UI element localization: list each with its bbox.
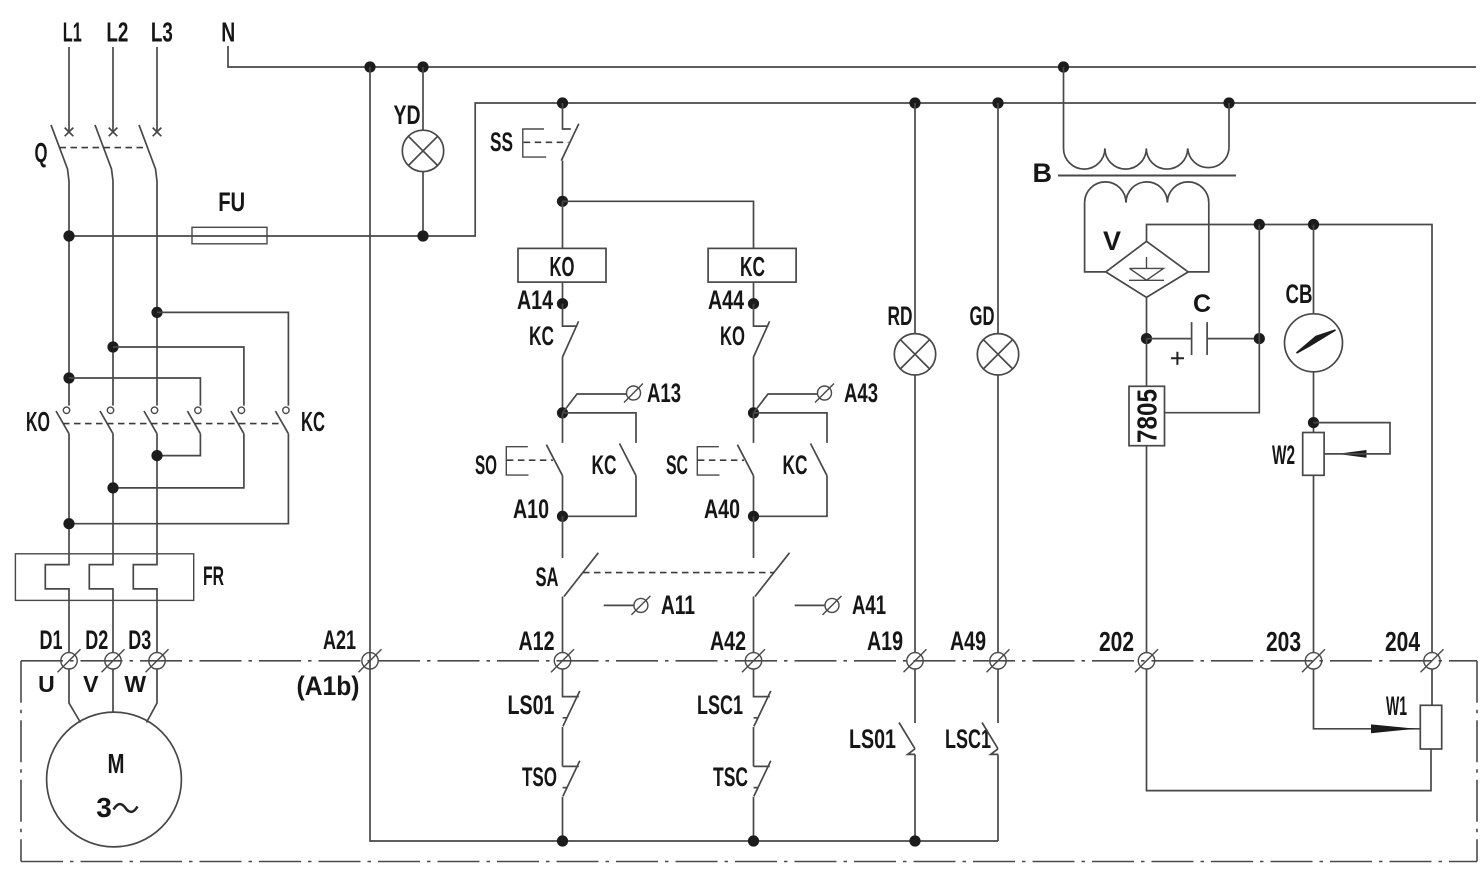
transformer B core — [1058, 175, 1236, 177]
node A44 — [748, 298, 759, 309]
node SS output junction — [557, 196, 568, 207]
svg-text:KC: KC — [592, 450, 617, 480]
selector SA blade left — [564, 553, 598, 597]
svg-text:A21: A21 — [323, 625, 356, 655]
lamp GD — [977, 334, 1018, 375]
wire SA right lower lead — [753, 597, 755, 653]
terminal A21 — [359, 649, 382, 672]
panel boundary dash-dot right — [1476, 661, 1478, 862]
node A40 — [748, 511, 759, 522]
terminal A43 — [815, 384, 834, 403]
wire SA left lower lead — [562, 597, 564, 653]
pushbutton SO blade — [546, 445, 562, 476]
node YD on fuse line — [417, 230, 428, 241]
wire W2 bottom to 203 — [1313, 475, 1315, 652]
terminal D2 — [102, 649, 125, 672]
wire motor lead W — [147, 669, 158, 723]
svg-text:SO: SO — [475, 450, 497, 480]
pushbutton SC dashed link — [698, 459, 744, 461]
terminal A13 — [624, 384, 643, 403]
svg-text:KC: KC — [783, 450, 808, 480]
rectifier V diode symbol — [1129, 257, 1164, 280]
node pole6 out — [63, 518, 74, 529]
regulator 7805 input lead — [1146, 339, 1148, 387]
terminal A11 — [631, 596, 650, 615]
contactor pole 3 (KO) — [144, 407, 158, 434]
regulator 7805 box — [1129, 386, 1165, 445]
node KC branch bottom — [748, 835, 759, 846]
wire phase2 vertical — [112, 434, 114, 555]
node bus2 at SS branch — [557, 97, 568, 108]
svg-text:LS01: LS01 — [849, 724, 896, 754]
wire GD upper — [997, 103, 999, 334]
wire pole6 output to phase1 — [69, 434, 288, 524]
terminal A49 — [987, 649, 1010, 672]
wire 203 to W1 wiper — [1314, 669, 1421, 729]
svg-text:KO: KO — [720, 321, 745, 351]
svg-text:(A1b): (A1b) — [297, 671, 360, 701]
coil KO box — [518, 248, 606, 282]
contactor pole 5 (KC) — [231, 407, 245, 434]
node W2 top junction — [1308, 417, 1319, 428]
node A43 junction — [748, 407, 759, 418]
breaker Q pole 2 blade — [95, 125, 113, 406]
breaker Q linkage dashed — [60, 147, 148, 149]
wire secondary left lead — [1085, 203, 1106, 272]
regulator 7805 output lead — [1146, 446, 1148, 653]
node rectifier output — [1141, 333, 1152, 344]
contactor pole 4 (KC) — [187, 407, 201, 434]
svg-text:KC: KC — [740, 251, 765, 282]
wire RD lower — [914, 375, 916, 653]
node N bus at transformer — [1058, 61, 1069, 72]
terminal 203 — [1302, 649, 1325, 672]
wire L3 to pole6 — [157, 312, 288, 405]
terminal A41 — [823, 596, 842, 615]
panel boundary dash-dot bottom — [21, 861, 1477, 863]
pushbutton SO actuator box — [506, 447, 528, 475]
thermal relay FR heater 3 — [133, 555, 157, 653]
limit switch TSC NC — [754, 761, 771, 841]
svg-text:A10: A10 — [513, 494, 549, 524]
contactor linkage dashed — [63, 423, 283, 425]
wire KC coil to A44 — [753, 282, 755, 304]
svg-text:FU: FU — [218, 187, 245, 217]
svg-text:204: 204 — [1385, 626, 1420, 657]
wire rectifier top to plus rail — [1147, 225, 1433, 653]
selector SA upper lead (left pole) — [562, 516, 564, 558]
potentiometer W1 wiper arrow — [1371, 724, 1416, 733]
svg-text:SA: SA — [536, 562, 559, 592]
thermal relay FR heater 2 — [89, 555, 113, 653]
contact KO NC (in KC branch) — [753, 304, 769, 413]
svg-text:RD: RD — [888, 301, 913, 331]
wire L2 to pole5 — [113, 347, 244, 406]
wire SO lower lead — [562, 476, 564, 517]
svg-text:A42: A42 — [710, 626, 746, 656]
potentiometer W1 body — [1420, 705, 1441, 749]
thermal relay FR heater 1 — [45, 555, 69, 653]
capacitor C plus sign — [1171, 352, 1184, 365]
contactor pole 1 (KO) — [56, 407, 70, 434]
motor tilde — [114, 804, 138, 812]
rectifier V diamond — [1106, 241, 1188, 297]
contactor pole 6 (KC) — [275, 407, 289, 434]
node A13 junction — [557, 407, 568, 418]
svg-text:7805: 7805 — [1132, 389, 1163, 443]
node L3 to KC pole6 — [151, 307, 162, 318]
node bus2 at transformer — [1223, 97, 1234, 108]
breaker Q pole 1 blade — [51, 125, 69, 406]
node fuse line at L1 — [63, 230, 74, 241]
svg-text:LSC1: LSC1 — [945, 724, 991, 754]
svg-text:A41: A41 — [852, 590, 886, 620]
node plus rail at CB — [1308, 219, 1319, 230]
wire rectifier bottom lead — [1146, 297, 1148, 338]
breaker Q pole 1 contact x — [65, 128, 74, 137]
svg-text:V: V — [83, 671, 99, 697]
transformer B primary winding — [1064, 148, 1230, 169]
svg-text:A19: A19 — [867, 626, 903, 656]
wire 204 to W1 top — [1431, 669, 1433, 705]
fuse FU body — [192, 227, 267, 244]
transformer B secondary winding — [1085, 182, 1209, 203]
node bus2 at GD — [992, 97, 1003, 108]
svg-text:A49: A49 — [950, 626, 986, 656]
terminal D1 — [58, 649, 81, 672]
svg-text:SC: SC — [666, 450, 688, 480]
lamp YD — [402, 130, 443, 171]
svg-text:A13: A13 — [647, 378, 681, 408]
thermal relay FR body — [15, 554, 193, 601]
wire KO coil to A14 — [562, 282, 564, 304]
wire CB bottom lead — [1313, 372, 1315, 433]
contact KC NC (in KO branch) — [562, 304, 578, 413]
wire GD lower — [997, 375, 999, 653]
wire junction to KC coil branch — [563, 201, 754, 248]
pushbutton SC actuator box — [697, 447, 719, 475]
switch SS lower lead — [562, 161, 564, 202]
wire A43 stub — [754, 394, 818, 413]
wire W2 wiper loop — [1314, 423, 1391, 454]
svg-text:FR: FR — [203, 561, 224, 591]
wire L3 lead — [156, 47, 158, 132]
svg-text:KC: KC — [301, 406, 325, 437]
wire phase1 vertical — [68, 434, 70, 555]
terminal 204 — [1421, 649, 1444, 672]
limit switch LS01 NC — [563, 669, 580, 766]
svg-text:GD: GD — [970, 301, 995, 331]
meter CB needle — [1297, 330, 1336, 353]
wire secondary right lead — [1188, 203, 1209, 272]
breaker Q pole 3 blade — [139, 125, 157, 406]
wire CB top lead — [1313, 225, 1315, 314]
svg-text:A40: A40 — [704, 494, 740, 524]
node L1 to KC pole4 — [63, 372, 74, 383]
svg-text:LSC1: LSC1 — [697, 690, 743, 720]
svg-text:SS: SS — [490, 127, 513, 157]
svg-text:LS01: LS01 — [508, 690, 555, 720]
svg-text:W: W — [124, 671, 146, 697]
wire YD bottom lead — [422, 172, 424, 236]
wire junction to KO coil — [562, 201, 564, 248]
node RD branch bottom — [909, 835, 920, 846]
pushbutton SO dashed link — [507, 459, 553, 461]
wire L1 lead — [68, 47, 70, 132]
svg-text:U: U — [38, 671, 55, 697]
wire transformer primary right lead — [1228, 103, 1230, 148]
node plus rail at C — [1254, 219, 1265, 230]
breaker Q pole 2 contact x — [109, 128, 118, 137]
capacitor C — [1147, 322, 1260, 355]
node A10 — [557, 511, 568, 522]
terminal A42 — [742, 649, 765, 672]
limit switch LSC1 NC — [754, 669, 771, 766]
breaker Q pole 3 contact x — [153, 128, 162, 137]
potentiometer W2 wiper arrow — [1337, 450, 1367, 458]
wire motor lead V — [112, 669, 114, 713]
node pole4 out — [151, 450, 162, 461]
wire phase3 vertical — [156, 434, 158, 555]
switch SS actuator box — [523, 129, 546, 157]
pushbutton SO upper lead — [562, 413, 564, 443]
selector SA linkage dashed — [583, 572, 774, 574]
svg-text:TSC: TSC — [713, 762, 748, 792]
wire YD top lead — [422, 67, 424, 130]
contact KC NO parallel (around SC) — [754, 413, 828, 516]
wire pole4 output to phase3 — [157, 434, 200, 456]
wire W1 bottom loop to 202 — [1147, 669, 1432, 791]
switch SS actuator dashed link — [524, 141, 569, 143]
wire transformer primary left lead — [1063, 67, 1065, 148]
motor M circle — [47, 712, 182, 847]
potentiometer W2 body — [1303, 433, 1324, 476]
svg-text:C: C — [1193, 290, 1211, 318]
svg-text:A12: A12 — [519, 626, 555, 656]
svg-text:D2: D2 — [85, 625, 108, 655]
node A14 — [557, 298, 568, 309]
panel boundary dash-dot left — [20, 661, 22, 862]
pushbutton SC blade — [737, 445, 753, 476]
svg-text:B: B — [1033, 158, 1053, 188]
wire A41 stub — [795, 604, 825, 606]
svg-text:KC: KC — [529, 321, 554, 351]
terminal 202 — [1135, 649, 1158, 672]
contact KC NO parallel (around SO) — [563, 413, 637, 516]
wire A11 stub — [604, 604, 634, 606]
node N bus at YD — [417, 61, 428, 72]
wire RD upper — [914, 103, 916, 334]
svg-text:L2: L2 — [106, 17, 128, 48]
contactor pole 2 (KO) — [100, 407, 114, 434]
svg-text:L3: L3 — [151, 17, 173, 48]
panel boundary dash-dot top terminal line — [21, 660, 1477, 662]
wire L2 lead — [112, 47, 114, 132]
svg-text:W1: W1 — [1386, 691, 1407, 721]
meter CB circle — [1285, 314, 1343, 372]
svg-text:L1: L1 — [63, 17, 82, 48]
svg-text:A44: A44 — [708, 285, 744, 315]
limit switch LS01 NO — [899, 669, 915, 841]
wire SC lower lead — [753, 476, 755, 517]
lamp RD — [894, 334, 935, 375]
svg-text:203: 203 — [1266, 626, 1301, 657]
wire fuse line — [69, 103, 1476, 236]
wire C right rail down to 7805 common — [1165, 225, 1260, 413]
terminal D3 — [146, 649, 169, 672]
wire N lead and top N bus — [228, 46, 1476, 67]
svg-text:3: 3 — [96, 792, 112, 823]
svg-text:A14: A14 — [517, 285, 553, 315]
selector SA right pole upper lead — [753, 516, 755, 558]
limit switch LSC1 NO — [982, 669, 998, 841]
node N bus at control return — [364, 61, 375, 72]
svg-text:W2: W2 — [1272, 440, 1295, 470]
wire pole5 output to phase2 — [113, 434, 244, 488]
node capacitor right — [1254, 333, 1265, 344]
svg-text:YD: YD — [394, 100, 421, 130]
svg-text:KO: KO — [550, 251, 575, 282]
svg-text:202: 202 — [1099, 626, 1134, 657]
svg-text:CB: CB — [1286, 279, 1313, 309]
svg-text:Q: Q — [35, 137, 48, 168]
wire L1 to pole4 — [69, 378, 200, 406]
svg-text:A43: A43 — [844, 378, 878, 408]
wire motor lead U — [69, 669, 81, 723]
limit switch TSO NC — [563, 761, 580, 841]
terminal A19 — [904, 649, 927, 672]
svg-text:A11: A11 — [661, 590, 695, 620]
wire A13 stub — [563, 394, 627, 413]
selector SA blade right — [755, 553, 790, 597]
svg-text:M: M — [108, 748, 125, 779]
switch SS blade — [561, 124, 579, 161]
svg-text:D1: D1 — [40, 625, 63, 655]
svg-text:N: N — [221, 17, 235, 48]
node bus2 at RD — [909, 97, 920, 108]
pushbutton SC upper lead — [753, 413, 755, 443]
switch SS upper lead with bend — [563, 103, 571, 129]
node L2 to KC pole5 — [107, 341, 118, 352]
terminal A12 — [551, 649, 574, 672]
coil KC box — [708, 248, 796, 282]
node pole5 out — [107, 482, 118, 493]
node KO branch bottom — [557, 835, 568, 846]
wire control return vertical — [370, 67, 998, 841]
svg-text:V: V — [1103, 226, 1121, 256]
svg-text:KO: KO — [26, 406, 50, 437]
svg-text:D3: D3 — [128, 625, 151, 655]
svg-text:TSO: TSO — [522, 762, 557, 792]
